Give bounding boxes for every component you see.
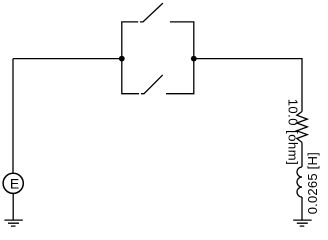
- wire resistor to inductor: [301, 142, 303, 167]
- wire top branch left: [122, 22, 138, 59]
- wire left rail: [12, 59, 14, 174]
- node junction dot left: [119, 56, 125, 62]
- wire inductor to ground: [301, 197, 303, 220]
- breaker BRK top blade: [140, 3, 163, 22]
- svg-text:0.0265 [H]: 0.0265 [H]: [305, 152, 320, 214]
- svg-text:E: E: [10, 175, 19, 191]
- wire right horizontal: [194, 59, 302, 112]
- node junction dot right: [191, 56, 197, 62]
- wire source to ground: [12, 193, 14, 220]
- ground right: [293, 220, 311, 226]
- wire bottom branch left: [122, 59, 139, 94]
- source E1: [3, 173, 23, 193]
- wire bottom branch right: [166, 59, 194, 94]
- wire top branch right: [170, 22, 194, 59]
- resistor R1: [297, 112, 308, 143]
- svg-text:10.0 [ohm]: 10.0 [ohm]: [285, 99, 300, 165]
- ground left: [4, 220, 22, 226]
- inductor L1: [297, 167, 302, 197]
- wire top-left horizontal: [13, 58, 122, 60]
- breaker BRK bottom blade: [141, 75, 163, 94]
